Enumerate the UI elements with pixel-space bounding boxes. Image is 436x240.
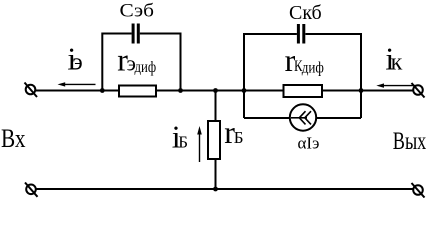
svg-text:к: к (391, 50, 403, 76)
svg-text:Вых: Вых (393, 128, 427, 155)
terminal Вх top (25, 83, 38, 98)
resistor rЭдиф box (119, 86, 156, 97)
resistor rБ box (208, 121, 220, 159)
svg-text:диф: диф (302, 60, 324, 77)
wire capacitor СЭБ loop (102, 34, 180, 91)
top rail wire (35, 90, 413, 92)
node junction dots (100, 88, 364, 191)
svg-text:Б: Б (234, 128, 244, 147)
svg-text:диф: диф (135, 59, 157, 76)
terminal Вых top (412, 83, 425, 98)
current source αIэ circle (290, 104, 316, 130)
capacitor C2 СКБ plates (298, 24, 303, 44)
svg-text:Скб: Скб (289, 2, 322, 24)
current source arrow chevrons (291, 111, 311, 124)
arrow iК (376, 83, 416, 87)
wire capacitor СКБ loop (244, 34, 361, 118)
svg-text:э: э (72, 50, 82, 76)
resistor rКдиф box (284, 85, 323, 97)
svg-text:Б: Б (178, 133, 188, 152)
terminal Вых bottom (412, 183, 425, 198)
wire current source branch (244, 117, 361, 119)
resistor rБ vertical branch wire (215, 91, 217, 190)
svg-text:Сэб: Сэб (120, 1, 155, 22)
bottom rail wire (36, 188, 413, 190)
arrow iБ (197, 126, 202, 162)
capacitor C1 СЭБ plates (133, 24, 138, 44)
svg-text:Вх: Вх (1, 124, 26, 153)
terminal Вх bottom (25, 183, 38, 197)
svg-text:αIэ: αIэ (298, 134, 320, 153)
arrow iЭ (58, 82, 96, 86)
